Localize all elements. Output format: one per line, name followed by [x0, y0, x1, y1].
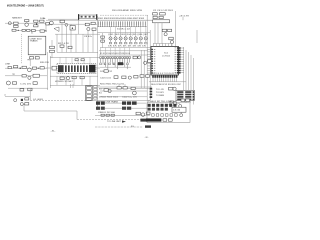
network box T1 — [28, 36, 46, 55]
box mb2 — [117, 87, 121, 89]
box right of matrix — [133, 56, 137, 59]
svg-text:TP2: TP2 — [12, 74, 15, 76]
svg-text:Q301 Q302 Q303 Q304 Q305 Q306: Q301 Q302 Q303 Q304 Q305 Q306 Q307 — [108, 34, 148, 36]
wire dash-dot net line top — [100, 14, 148, 16]
wire y32.6 rail — [98, 32, 151, 34]
connector J1 pin4 — [93, 16, 95, 18]
wire vertical x150 — [149, 30, 151, 100]
wire y87 long — [98, 86, 152, 88]
left column small boxes — [101, 36, 105, 38]
array to transistor drops — [110, 27, 112, 37]
transistor Q21 — [138, 56, 141, 59]
svg-text:R210 R211 R212 C210: R210 R211 R212 C210 — [100, 84, 124, 86]
ringer circle2 — [20, 103, 23, 106]
wire drop x71 — [70, 24, 72, 52]
relay cell 1 — [86, 87, 91, 90]
wire y108 right — [131, 107, 150, 109]
capacitor C5 — [30, 57, 34, 59]
wire stub2 — [51, 53, 53, 59]
node2 — [38, 68, 39, 69]
wire drop x66 — [65, 26, 67, 52]
connector J1 left bracket — [78, 14, 79, 20]
resistor R16 — [12, 82, 16, 84]
connector J1 pin3 — [89, 16, 91, 18]
svg-text:LS 16: LS 16 — [173, 110, 180, 112]
oscillator module box — [153, 20, 170, 23]
svg-text:DIAL: DIAL — [40, 17, 46, 20]
transistor Q53 — [179, 105, 182, 108]
IC U1 LC7502 body — [151, 47, 179, 76]
cap C14 — [25, 98, 29, 100]
resistor R9 — [50, 46, 55, 48]
connector pads column left — [150, 88, 153, 90]
resistor R51 — [169, 87, 173, 90]
dark comp row1 b3 — [132, 101, 137, 104]
wire y96 left — [5, 95, 30, 97]
wire drop x190 — [190, 101, 192, 103]
connector J1 pin2 — [85, 16, 87, 18]
svg-text:1 2 3 4 5 6 7 8 9 10 11 12: 1 2 3 4 5 6 7 8 9 10 11 12 — [153, 73, 178, 75]
relay block column outer — [85, 86, 92, 101]
resistor R8 — [40, 30, 44, 32]
IC inner right pin numbers — [175, 46, 177, 49]
connector block CN2 grid — [176, 90, 194, 100]
svg-text:C 47u 25V: C 47u 25V — [20, 83, 31, 85]
small box bm1 — [101, 114, 104, 116]
capacitor C1 — [25, 20, 29, 22]
box mb3 — [123, 87, 127, 89]
cluster small box b — [28, 88, 32, 91]
side column small boxes — [94, 86, 97, 88]
wire drop x181 — [180, 108, 182, 113]
svg-text:SEG COM DP KI KS VDD OSC: SEG COM DP KI KS VDD OSC — [151, 84, 181, 86]
resistor R31 — [72, 76, 76, 78]
svg-text:R301 R302 R303 R304 R305 R306: R301 R302 R303 R304 R305 R306 R307 R308 — [98, 18, 144, 20]
wire x73 stub — [72, 84, 74, 88]
svg-text:TP1: TP1 — [27, 59, 30, 61]
small box top right a — [181, 99, 185, 102]
wire y88 left — [8, 87, 48, 89]
dark node blob — [21, 99, 23, 101]
wire main horizontal bus y20 — [46, 19, 161, 21]
svg-text:VR601 2K 560: VR601 2K 560 — [98, 112, 115, 114]
dark comp row1 a1 — [96, 101, 100, 104]
CN2 right pads — [193, 91, 195, 93]
svg-text:TO MEM: TO MEM — [156, 95, 165, 97]
svg-text:LC7502: LC7502 — [162, 55, 170, 57]
node — [18, 30, 19, 31]
wire stub q42 — [171, 44, 173, 47]
left column small boxes 2 — [101, 40, 105, 42]
wire drop x186 — [185, 101, 187, 103]
resistor R24 — [146, 75, 150, 77]
capacitor C4 — [27, 29, 30, 31]
resistor R32 — [80, 76, 84, 78]
stub risers module — [56, 76, 58, 85]
hook switch shape — [54, 27, 59, 32]
capacitor C31 — [60, 77, 64, 80]
svg-text:R17 4.7K: R17 4.7K — [58, 43, 69, 45]
sub box right — [172, 107, 186, 112]
capacitor C2 — [46, 23, 50, 25]
wire x144 vertical — [143, 50, 145, 88]
connector pin row 1 — [148, 104, 151, 107]
module left block — [58, 65, 64, 72]
wire vertical x162 down — [161, 23, 163, 44]
transistor in enclosure — [180, 114, 183, 117]
svg-text:100K x 22: 100K x 22 — [117, 29, 130, 31]
wire handset row1 — [5, 22, 46, 24]
transistor Qm — [108, 89, 111, 92]
speech network module outline — [57, 64, 96, 74]
svg-text:+B 4.7V: +B 4.7V — [179, 15, 190, 17]
transistor Qb — [141, 113, 145, 117]
wire y108 — [105, 107, 122, 109]
wire vertical x188 — [188, 52, 190, 90]
receiver RC1 — [25, 23, 29, 27]
resistor R25 — [134, 75, 138, 78]
wire dash-dot bottom y127 — [95, 126, 143, 128]
capacitor on fence a — [60, 45, 64, 47]
relay cell 4 — [86, 98, 91, 100]
svg-text:0.1 400V: 0.1 400V — [33, 99, 43, 101]
wire y115 long — [95, 114, 150, 116]
wire solid return path bottom left — [24, 110, 77, 112]
IC bottom pin pads — [152, 75, 154, 78]
resistor R13 — [13, 66, 17, 68]
node junction — [36, 23, 37, 24]
capacitor C12 — [22, 75, 26, 77]
module top stubs — [59, 57, 61, 63]
box small — [25, 103, 29, 105]
capacitor C13 — [33, 82, 37, 85]
wire vertical x193 — [193, 58, 195, 90]
capacitor on fence b — [68, 46, 72, 48]
small box top right b — [186, 99, 190, 102]
wire matrix top line — [99, 54, 148, 56]
resistor R23 — [140, 75, 144, 77]
wire diag 1 — [168, 101, 176, 105]
resistor R11 — [91, 22, 95, 24]
capacitor Cb — [146, 112, 150, 114]
svg-text:IC1: IC1 — [164, 53, 168, 55]
box mb1 — [104, 89, 108, 92]
dark comp row1 a2 — [101, 101, 105, 104]
resistor above module b — [81, 59, 84, 61]
dark comp row2 b1 — [122, 107, 126, 110]
svg-text:P.10: P.10 — [131, 126, 134, 128]
wire right ticks x197 — [196, 30, 198, 43]
connector J1 pin1 — [81, 16, 83, 18]
svg-text:C201 0.01: C201 0.01 — [100, 77, 111, 79]
resistor R4 — [40, 20, 44, 22]
wire y57 left run — [50, 56, 100, 58]
wire left mid y68 — [5, 67, 47, 69]
crystal network box a — [153, 13, 158, 15]
IC left pin stubs — [148, 49, 152, 51]
IC inner left pin numbers — [154, 48, 156, 51]
wire vertical x158 down — [157, 23, 159, 44]
dark comp row1 b1 — [122, 101, 126, 104]
wire bus under IC — [149, 81, 186, 83]
resistor R42 — [168, 29, 172, 31]
dashed line x21 — [21, 34, 23, 64]
module input box — [52, 66, 56, 70]
wire handset row2 — [12, 29, 46, 31]
wire row y47 — [100, 47, 150, 49]
wire y85 under module — [50, 84, 100, 86]
relay cell 2 — [86, 91, 91, 94]
wire vertical x147 — [146, 15, 148, 104]
diode bridge cluster — [70, 25, 75, 30]
diode D11 — [40, 67, 44, 69]
svg-text:HANDSET: HANDSET — [12, 17, 23, 20]
resistor R6 — [12, 29, 16, 31]
wire x102 drop — [102, 33, 104, 48]
IC right pin pads — [177, 47, 181, 49]
dark blob bottom mid — [140, 119, 147, 122]
wire right stub x183 — [182, 17, 184, 20]
module hatch bars — [65, 65, 67, 72]
transistor Q11 — [28, 76, 31, 79]
wire x30 stub mid — [29, 56, 31, 66]
resistor R10 — [50, 50, 55, 52]
speaker SP1 — [50, 21, 54, 25]
svg-text:–31–: –31– — [51, 131, 57, 133]
resistor array RA1 — [97, 21, 99, 25]
relay cell 3 — [86, 95, 91, 98]
module right dark block — [89, 65, 95, 73]
bell circle B1 — [6, 81, 10, 85]
svg-text:R301–R318 ARRAY: R301–R318 ARRAY — [112, 9, 130, 12]
matrix second row squares — [100, 63, 102, 65]
wire array bottom rail — [98, 26, 148, 28]
capacitor C11 — [8, 66, 11, 68]
small box bm3 — [111, 114, 114, 116]
resistor R1 — [14, 22, 19, 24]
wire drop x57 — [56, 34, 58, 52]
wire stub x119 — [118, 84, 120, 87]
IC top pin stubs — [153, 44, 155, 47]
wire y34 long — [55, 33, 100, 35]
wire y76 under module — [50, 75, 98, 77]
transistor Q41 — [164, 33, 167, 36]
wire y103 right — [137, 102, 146, 104]
emitter stubs row — [110, 40, 112, 42]
cluster bottom right of mid — [136, 112, 140, 115]
resistor R5 — [34, 25, 38, 27]
base resistor row — [109, 42, 112, 44]
wire drop x62 — [61, 23, 63, 53]
dark comp row2 a2 — [101, 107, 105, 110]
resistor R43 — [169, 37, 173, 40]
wire vertical bus x97 — [97, 16, 99, 110]
svg-text:–32–: –32– — [145, 137, 149, 139]
small comps right of bar — [163, 119, 167, 121]
svg-text:TO KEY: TO KEY — [156, 92, 165, 94]
resistor R15 — [32, 67, 36, 69]
capacitor C3 — [22, 29, 25, 31]
wire riser — [45, 23, 47, 30]
transistor Q51 — [173, 87, 176, 90]
svg-text:0.1: 0.1 — [31, 33, 33, 35]
ringer circle — [14, 99, 17, 102]
wire y96.8 mid — [100, 96, 147, 98]
vertical x30 lower — [29, 88, 31, 100]
wire stub x125 — [124, 84, 126, 87]
box mb4 — [131, 87, 135, 89]
dark blob right of dashline — [145, 125, 151, 127]
wire vertical bus x78 top — [78, 14, 80, 34]
crystal network box b — [160, 13, 166, 15]
component row 3 — [152, 114, 155, 116]
capacitor C43 — [153, 16, 157, 18]
svg-text:1K 1K 1K 1K 1K 1K 1K 1K: 1K 1K 1K 1K 1K 1K 1K 1K — [108, 45, 146, 47]
svg-text:X1 C41 C42 R41: X1 C41 C42 R41 — [153, 10, 173, 12]
wire x141 vertical — [140, 50, 142, 88]
wire y50 mid — [99, 50, 148, 52]
wire y24 run — [48, 23, 97, 25]
wire vertical x47 left — [47, 52, 49, 90]
wire y100 mid — [95, 99, 150, 101]
wire vertical stub x24 bottom-left — [23, 104, 25, 111]
svg-text:CN601 8P TEL LINE: CN601 8P TEL LINE — [148, 101, 172, 103]
wire drop x88 — [87, 31, 89, 52]
transistor Qm2 — [133, 91, 137, 95]
svg-text:L1: L1 — [4, 94, 6, 96]
transistor Q42 — [170, 40, 173, 43]
resistor above module a — [75, 59, 78, 61]
capacitor C7 — [85, 23, 89, 26]
transistor Q31 — [66, 77, 69, 80]
wire vertical x191 — [190, 55, 192, 90]
wire dashed bottom horizontal y119 — [77, 119, 143, 121]
arrow mark — [122, 120, 126, 122]
resistor R3 — [34, 20, 38, 22]
wire drop x181b — [180, 108, 182, 114]
resistor R12 — [92, 28, 96, 30]
svg-text:R305 1/8W: R305 1/8W — [130, 10, 143, 12]
svg-text:C8 47u: C8 47u — [84, 36, 92, 38]
wire drop x76 — [75, 34, 77, 52]
wire vertical x186 — [185, 50, 187, 90]
dark label bar PB — [146, 118, 161, 121]
resistor R7 — [32, 29, 36, 31]
svg-text:HYBRID SP-NET: HYBRID SP-NET — [55, 81, 73, 83]
svg-text:R30 220: R30 220 — [40, 62, 49, 64]
node — [72, 28, 73, 29]
enclosure bottom right — [147, 103, 190, 123]
svg-text:TO LINE UNIT: TO LINE UNIT — [107, 121, 121, 123]
transformer box — [60, 20, 64, 23]
transistor Q23 — [128, 76, 131, 79]
svg-text:LINE 600: LINE 600 — [30, 38, 42, 40]
wire left mid y75 — [5, 75, 47, 77]
wire array top bus — [97, 19, 160, 21]
capacitor C22 — [122, 76, 126, 79]
wire vertical x175 — [175, 11, 177, 47]
wire vertical x183 — [183, 47, 185, 90]
cluster small box a — [20, 89, 24, 91]
transistor row Q301-Q308 — [109, 37, 112, 40]
wire vertical x155 down — [154, 23, 156, 44]
wire vertical x50 mid — [50, 56, 52, 88]
microphone MC1 — [8, 22, 11, 25]
small box bm2 — [106, 114, 109, 116]
node — [20, 68, 21, 69]
dark comp row2 b2 — [127, 107, 131, 110]
wire top row y19 — [48, 18, 79, 20]
resistor R22 — [148, 60, 152, 63]
dark box in matrix — [118, 62, 123, 65]
resistor R2 — [14, 25, 19, 27]
diode matrix columns — [100, 57, 102, 59]
wire y88.5 mid — [100, 88, 150, 90]
dark comp row2 a1 — [96, 107, 100, 110]
keypad drops — [100, 48, 102, 55]
diode D51 — [170, 101, 174, 103]
wire into module — [46, 67, 52, 69]
wire y103 — [105, 102, 122, 104]
transistor Q1 — [87, 27, 90, 30]
svg-text:RL2: RL2 — [99, 92, 102, 94]
capacitor C44 — [159, 16, 163, 18]
svg-text:TO LCD: TO LCD — [156, 89, 165, 91]
transistor Q52 — [173, 101, 177, 105]
connector pin row 2 — [148, 108, 151, 111]
connector J1 right bracket — [96, 14, 97, 20]
wire stub — [51, 40, 53, 46]
wire out of module — [95, 67, 100, 69]
connector J1 body — [79, 15, 96, 18]
wire y91 mid — [100, 90, 147, 92]
node — [45, 30, 46, 31]
transistor Q22 — [144, 61, 147, 64]
dark comp row1 b2 — [127, 101, 131, 104]
wire drop x83 — [82, 34, 84, 52]
wire matrix bottom — [100, 66, 131, 68]
resistor R21 — [104, 70, 108, 72]
wire drop x93 — [92, 30, 94, 52]
wire drop x193 — [193, 101, 195, 105]
zener box — [33, 74, 39, 77]
svg-text:M-250 TELEPHONE — ( MAIN CIRCU: M-250 TELEPHONE — ( MAIN CIRCUIT ) — [7, 3, 44, 7]
wire dashed mid-left horizontal y100 — [30, 99, 95, 101]
resistor R14 — [22, 66, 26, 68]
wire x70 stub — [70, 84, 72, 88]
capacitor C6 — [35, 57, 39, 59]
capacitor C21 — [114, 76, 118, 79]
wire diag 2 — [170, 103, 180, 107]
wire y52 above module — [57, 51, 98, 53]
wire vertical drop x77 — [76, 111, 78, 120]
varistor VA1 — [28, 68, 32, 72]
resistor R41 — [162, 29, 166, 31]
varistor — [65, 23, 68, 26]
wire IC top link — [153, 43, 171, 45]
